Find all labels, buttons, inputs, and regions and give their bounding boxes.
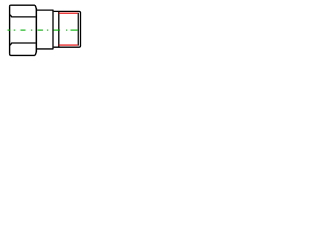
centerline dash 3 [38,29,44,31]
thread major diameter bottom edge [54,46,81,48]
pipe tip face edge [80,13,82,47]
centerline dot 3 [47,29,48,31]
centerline dot 4 [66,29,67,31]
thread minor diameter bottom (red) [59,44,78,46]
hex bottom-right corner chamfer [35,51,36,55]
hex top-right corner chamfer [35,5,36,9]
centerline dot 2 [31,29,32,31]
thread minor diameter top (red) [59,12,78,14]
hex body silhouette [10,5,37,55]
centerline dot 1 [14,29,16,31]
centerline dash 2 [21,29,26,31]
hex top edge [11,4,35,6]
hex flat edge top [10,15,36,17]
centerline dash 5 [71,29,78,31]
shoulder step edge [52,10,54,50]
hex flat edge bottom [10,43,36,45]
hex bottom-left corner chamfer [10,54,11,56]
hex left face edge [9,6,11,53]
hex top-left corner chamfer [10,5,11,6]
centerline dash 4 [54,29,61,31]
thread runout line [58,11,60,47]
background [0,0,90,60]
centerline (green dash-dot) [8,29,78,31]
tip chamfer line [77,13,79,46]
cylinder section top edge [37,9,53,11]
hex right face edge [35,8,37,52]
thread major diameter top edge [54,11,81,13]
hex bottom edge [11,54,35,56]
centerline dash 1 [8,29,11,31]
cylinder section bottom edge [37,48,53,50]
